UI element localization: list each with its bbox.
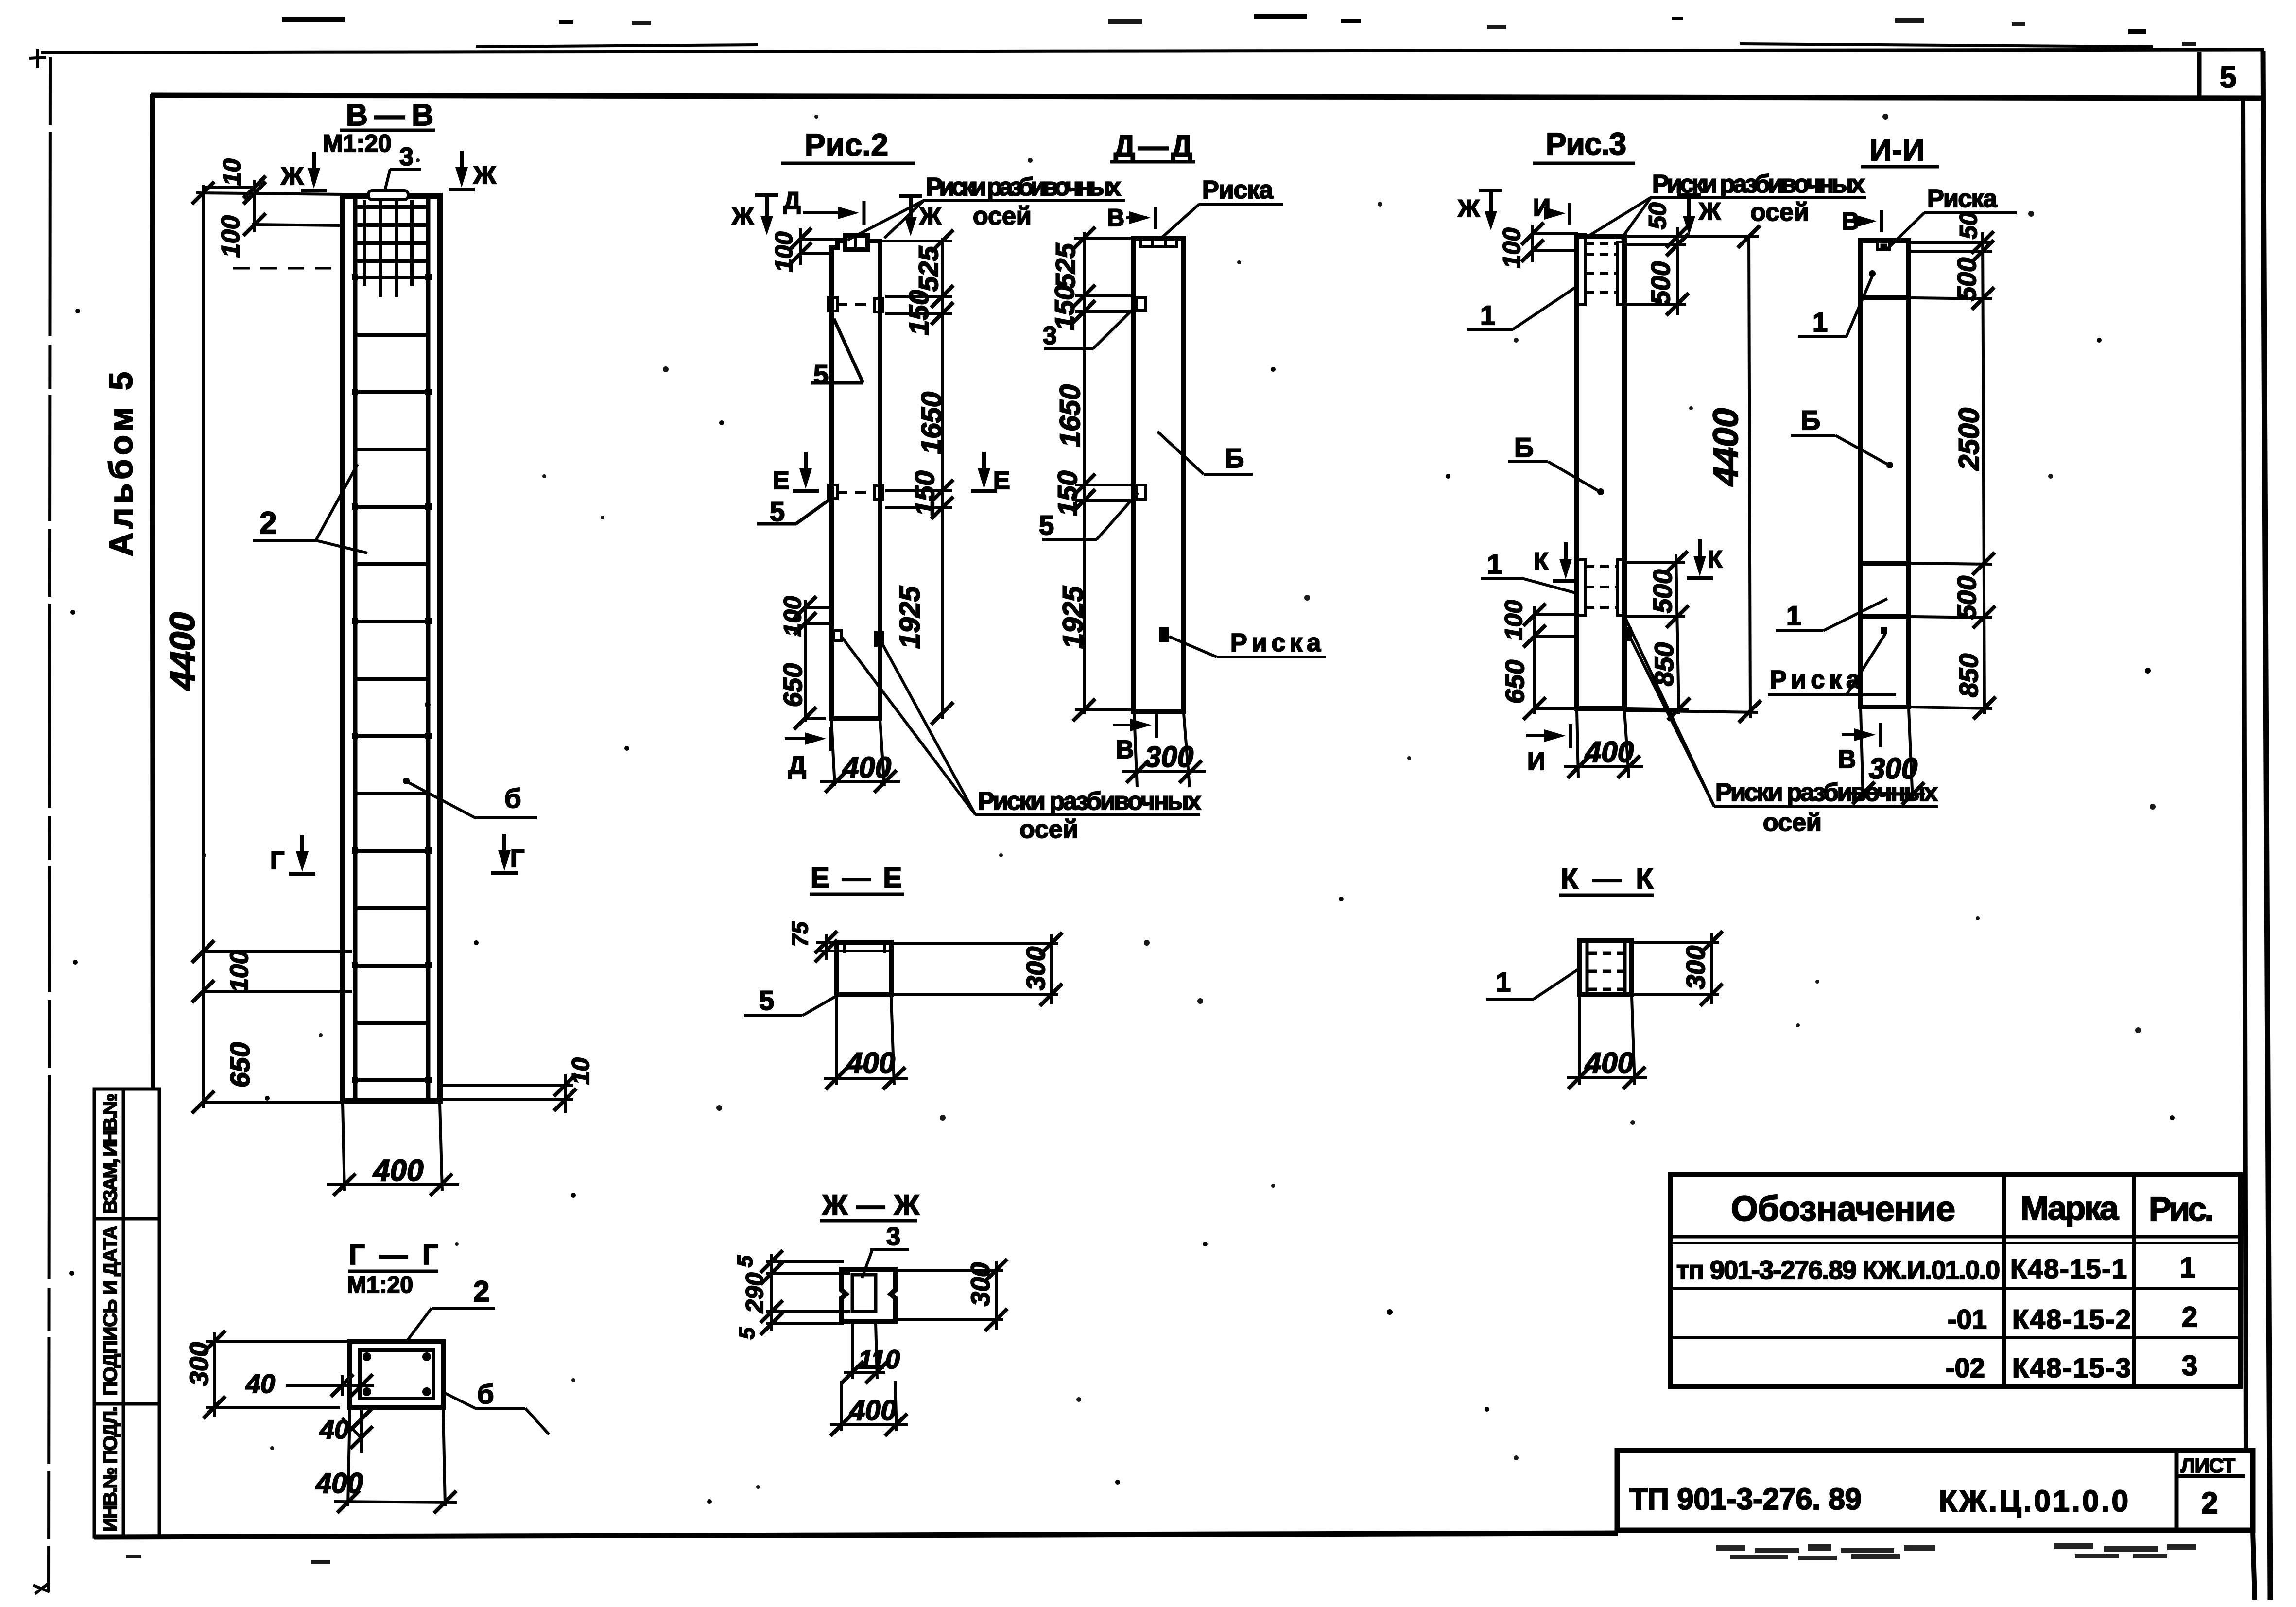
svg-text:100: 100 — [225, 950, 254, 992]
svg-text:110: 110 — [858, 1345, 900, 1374]
svg-text:Риски разбивочных: Риски разбивочных — [978, 787, 1201, 815]
svg-text:Рис.2: Рис.2 — [805, 127, 888, 162]
svg-text:5: 5 — [759, 985, 774, 1016]
svg-text:Ж: Ж — [473, 161, 497, 190]
svg-text:5: 5 — [813, 359, 829, 390]
svg-text:3: 3 — [1043, 322, 1057, 350]
svg-text:1: 1 — [1496, 967, 1511, 997]
svg-text:4400: 4400 — [163, 612, 202, 691]
svg-text:Ж — Ж: Ж — Ж — [822, 1190, 920, 1221]
svg-text:ТП 901-3-276. 89: ТП 901-3-276. 89 — [1629, 1483, 1862, 1516]
svg-text:50: 50 — [1955, 212, 1982, 239]
svg-text:КЖ.Ц.01.0.0: КЖ.Ц.01.0.0 — [1939, 1485, 2128, 1518]
svg-text:500: 500 — [1952, 258, 1982, 301]
svg-text:К — К: К — К — [1561, 863, 1654, 895]
svg-text:В: В — [1116, 736, 1134, 764]
svg-text:М1:20: М1:20 — [323, 130, 392, 157]
svg-text:Риска: Риска — [1927, 185, 1998, 213]
svg-text:В: В — [1107, 204, 1124, 231]
svg-text:1: 1 — [1480, 300, 1495, 330]
svg-text:650: 650 — [224, 1042, 255, 1088]
svg-text:400: 400 — [315, 1468, 363, 1499]
svg-text:Обозначение: Обозначение — [1731, 1190, 1955, 1228]
svg-text:400: 400 — [1585, 736, 1634, 768]
svg-text:400: 400 — [372, 1154, 423, 1188]
svg-text:Риска: Риска — [1202, 176, 1274, 204]
svg-text:100: 100 — [779, 596, 806, 637]
svg-text:150: 150 — [1052, 471, 1083, 516]
svg-text:Г: Г — [510, 845, 524, 873]
svg-text:ЛИСТ: ЛИСТ — [2181, 1454, 2235, 1477]
svg-text:Риски разбивочных: Риски разбивочных — [1652, 170, 1865, 198]
svg-text:3: 3 — [2182, 1350, 2197, 1382]
svg-text:Е — Е: Е — Е — [811, 862, 902, 894]
svg-text:В: В — [1838, 745, 1856, 774]
svg-text:5: 5 — [733, 1255, 757, 1267]
svg-text:850: 850 — [1954, 654, 1984, 697]
svg-text:400: 400 — [849, 1395, 897, 1426]
svg-text:Ж: Ж — [919, 203, 942, 230]
svg-text:К48-15-3: К48-15-3 — [2012, 1352, 2131, 1383]
svg-text:ПОДПИСЬ И ДАТА: ПОДПИСЬ И ДАТА — [100, 1226, 121, 1396]
svg-text:1: 1 — [1786, 600, 1801, 631]
svg-text:10: 10 — [218, 158, 245, 186]
svg-text:1650: 1650 — [1054, 384, 1086, 447]
svg-text:К48-15-1: К48-15-1 — [2010, 1253, 2127, 1284]
svg-text:1650: 1650 — [916, 392, 948, 454]
svg-text:ВЗАМ, ИНВ.№: ВЗАМ, ИНВ.№ — [100, 1093, 121, 1214]
svg-text:300: 300 — [1681, 946, 1710, 989]
svg-text:Б: Б — [1801, 405, 1820, 435]
svg-text:К: К — [1534, 548, 1549, 575]
svg-text:И-И: И-И — [1870, 134, 1924, 167]
svg-text:100: 100 — [1498, 227, 1525, 268]
svg-text:ИНВ.№ ПОДЛ.: ИНВ.№ ПОДЛ. — [100, 1406, 121, 1532]
svg-text:осей: осей — [1019, 815, 1078, 844]
svg-text:Риска: Риска — [1770, 666, 1861, 694]
svg-text:650: 650 — [778, 663, 808, 707]
svg-text:5: 5 — [735, 1327, 759, 1339]
svg-text:500: 500 — [1648, 570, 1677, 613]
svg-text:Д: Д — [783, 187, 801, 214]
svg-text:-01: -01 — [1948, 1304, 1987, 1334]
svg-text:100: 100 — [217, 215, 245, 258]
svg-text:М1:20: М1:20 — [347, 1272, 413, 1298]
svg-text:1925: 1925 — [1057, 586, 1089, 649]
svg-text:Риска: Риска — [1230, 629, 1321, 657]
svg-text:Б: Б — [1225, 443, 1244, 473]
svg-text:400: 400 — [1585, 1047, 1634, 1079]
svg-text:б: б — [477, 1379, 494, 1409]
svg-text:2: 2 — [2182, 1301, 2197, 1333]
svg-text:Риски разбивочных: Риски разбивочных — [926, 173, 1121, 201]
svg-text:3: 3 — [399, 143, 414, 171]
svg-text:5: 5 — [1039, 510, 1054, 540]
svg-text:4400: 4400 — [1707, 408, 1745, 487]
svg-text:К: К — [1708, 546, 1723, 573]
svg-text:3: 3 — [886, 1223, 900, 1251]
svg-text:300: 300 — [966, 1262, 995, 1306]
svg-text:-02: -02 — [1946, 1352, 1985, 1383]
svg-text:75: 75 — [787, 921, 812, 947]
svg-text:525: 525 — [913, 246, 944, 292]
svg-text:Ж: Ж — [280, 162, 304, 190]
svg-text:5: 5 — [2220, 61, 2236, 94]
svg-text:400: 400 — [846, 1047, 895, 1079]
svg-text:500: 500 — [1646, 261, 1675, 305]
svg-text:2: 2 — [259, 505, 277, 540]
svg-text:Г: Г — [270, 847, 284, 875]
svg-text:525: 525 — [1050, 243, 1081, 289]
svg-text:Рис.3: Рис.3 — [1546, 126, 1626, 161]
svg-text:2: 2 — [473, 1275, 489, 1308]
svg-text:300: 300 — [1021, 947, 1051, 990]
svg-text:Марка: Марка — [2020, 1189, 2119, 1227]
svg-text:осей: осей — [973, 202, 1032, 230]
svg-text:б: б — [504, 783, 521, 813]
svg-text:И: И — [1527, 747, 1545, 776]
svg-text:тп 901-3-276.89 КЖ.И.01.0.0: тп 901-3-276.89 КЖ.И.01.0.0 — [1676, 1256, 2000, 1285]
svg-text:осей: осей — [1750, 198, 1809, 226]
svg-text:1: 1 — [1813, 307, 1828, 337]
svg-text:Ж: Ж — [1457, 195, 1480, 222]
svg-text:2: 2 — [2201, 1486, 2218, 1520]
svg-text:300: 300 — [1869, 752, 1917, 785]
svg-text:К48-15-2: К48-15-2 — [2012, 1304, 2131, 1334]
svg-text:Рис.: Рис. — [2149, 1190, 2214, 1228]
svg-text:Д — Д: Д — Д — [1114, 130, 1192, 163]
svg-text:Г — Г: Г — Г — [349, 1239, 438, 1271]
svg-text:1: 1 — [1487, 549, 1502, 579]
svg-text:1: 1 — [2180, 1252, 2195, 1283]
svg-text:500: 500 — [1952, 576, 1982, 620]
svg-text:Д: Д — [788, 751, 806, 779]
svg-text:Ж: Ж — [1698, 198, 1721, 225]
svg-text:2500: 2500 — [1953, 408, 1985, 471]
svg-text:50: 50 — [1644, 202, 1671, 229]
svg-text:Альбом 5: Альбом 5 — [103, 372, 139, 556]
svg-text:В — В: В — В — [346, 99, 433, 132]
svg-text:Ж: Ж — [731, 203, 754, 230]
svg-text:Е: Е — [993, 467, 1010, 495]
svg-text:Б: Б — [1514, 432, 1534, 463]
svg-text:1925: 1925 — [894, 586, 926, 649]
svg-text:100: 100 — [770, 231, 797, 272]
svg-text:100: 100 — [1500, 600, 1527, 640]
svg-text:Е: Е — [773, 467, 790, 495]
svg-text:400: 400 — [842, 751, 891, 784]
svg-text:650: 650 — [1501, 660, 1530, 704]
svg-text:150: 150 — [903, 290, 934, 335]
svg-text:осей: осей — [1763, 809, 1822, 837]
svg-text:300: 300 — [1145, 741, 1193, 773]
svg-text:10: 10 — [567, 1057, 594, 1085]
svg-text:40: 40 — [245, 1369, 275, 1399]
svg-text:150: 150 — [909, 471, 940, 516]
